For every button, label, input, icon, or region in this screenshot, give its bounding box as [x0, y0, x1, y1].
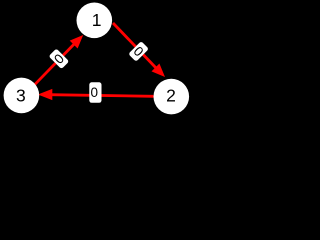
node 3: [4, 78, 40, 114]
svg-text:2: 2: [166, 85, 176, 105]
wire edge 1->2: [113, 23, 165, 77]
node label box 0 on edge 3->1: [49, 48, 70, 69]
svg-text:0: 0: [91, 85, 99, 100]
node 2: [154, 79, 190, 115]
svg-text:1: 1: [92, 10, 102, 30]
node label box 0 on edge 2->3: [89, 82, 101, 103]
svg-text:3: 3: [16, 85, 26, 105]
node label box 0 on edge 1->2: [128, 41, 149, 62]
wire edge 3->1: [35, 35, 84, 85]
wire edge 2->3: [38, 89, 154, 100]
node 1: [77, 3, 113, 39]
